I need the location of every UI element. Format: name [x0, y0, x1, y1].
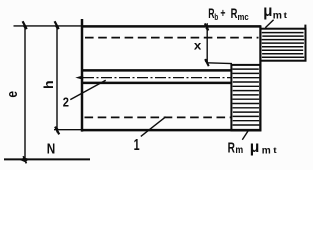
svg-text:m: m [273, 11, 282, 22]
svg-text:R: R [228, 139, 235, 156]
svg-text:N: N [47, 141, 56, 157]
arrow tick h top [55, 21, 59, 29]
arrow tick x top [205, 23, 209, 30]
leader line of label mu_mt (top) [265, 20, 273, 28]
svg-text:+: + [220, 8, 225, 20]
svg-text:e: e [4, 91, 21, 98]
label Rm mu_mt (bottom right) [228, 139, 277, 156]
dimension line x (vertical) [206, 23, 208, 63]
arrow tick h bottom [55, 126, 59, 134]
svg-text:mc: mc [238, 12, 249, 22]
dimension line e (vertical) [24, 26, 26, 160]
member outline: right edge [259, 25, 261, 131]
concrete layer: lower boundary line [82, 82, 232, 84]
svg-text:t: t [284, 10, 288, 20]
dashed line 2 (lower) [85, 116, 232, 118]
bottom edge extension line (left, for h dimension) [54, 129, 82, 131]
svg-text:b: b [214, 12, 218, 22]
dimension line h (vertical) [56, 26, 58, 132]
svg-text:2: 2 [63, 95, 69, 110]
svg-text:h: h [42, 80, 56, 89]
label mu_mt (top right) [263, 3, 287, 22]
member outline: bottom edge [81, 129, 261, 131]
svg-text:μ: μ [250, 139, 260, 156]
arrow tick e top [23, 21, 27, 29]
member outline: top edge [81, 25, 261, 27]
leader line of callout 2 [70, 80, 105, 99]
member outline: left edge [81, 19, 83, 132]
svg-text:1: 1 [134, 137, 140, 154]
axis arrow (left-pointing) [75, 75, 83, 79]
label Rb + Rmc [208, 5, 249, 22]
leader line of callout 1 [141, 117, 166, 137]
svg-text:μ: μ [263, 3, 272, 20]
dimension extension line top (from e/h lines to member) [14, 25, 83, 27]
concrete layer: upper boundary line [82, 69, 232, 71]
dashed line 1 (upper, compressed zone boundary) [85, 37, 259, 39]
x dimension bottom boundary line [207, 62, 232, 65]
svg-text:t: t [273, 145, 277, 155]
svg-text:m: m [262, 146, 271, 157]
arrow e bottom (onto N line) [20, 158, 30, 163]
stress block Rb+Rmc (top right, hatched) [261, 25, 306, 61]
leader line of label Rm mu_mt (bottom) [242, 131, 248, 140]
concrete layer axis (dash-dot line) [83, 77, 232, 79]
arrow tick x bottom [205, 59, 209, 66]
force N line of action [4, 158, 90, 160]
svg-text:R: R [231, 5, 238, 21]
stress block Rm (middle right, hatched) [231, 65, 260, 131]
svg-text:x: x [194, 38, 202, 52]
svg-text:m: m [235, 145, 243, 156]
